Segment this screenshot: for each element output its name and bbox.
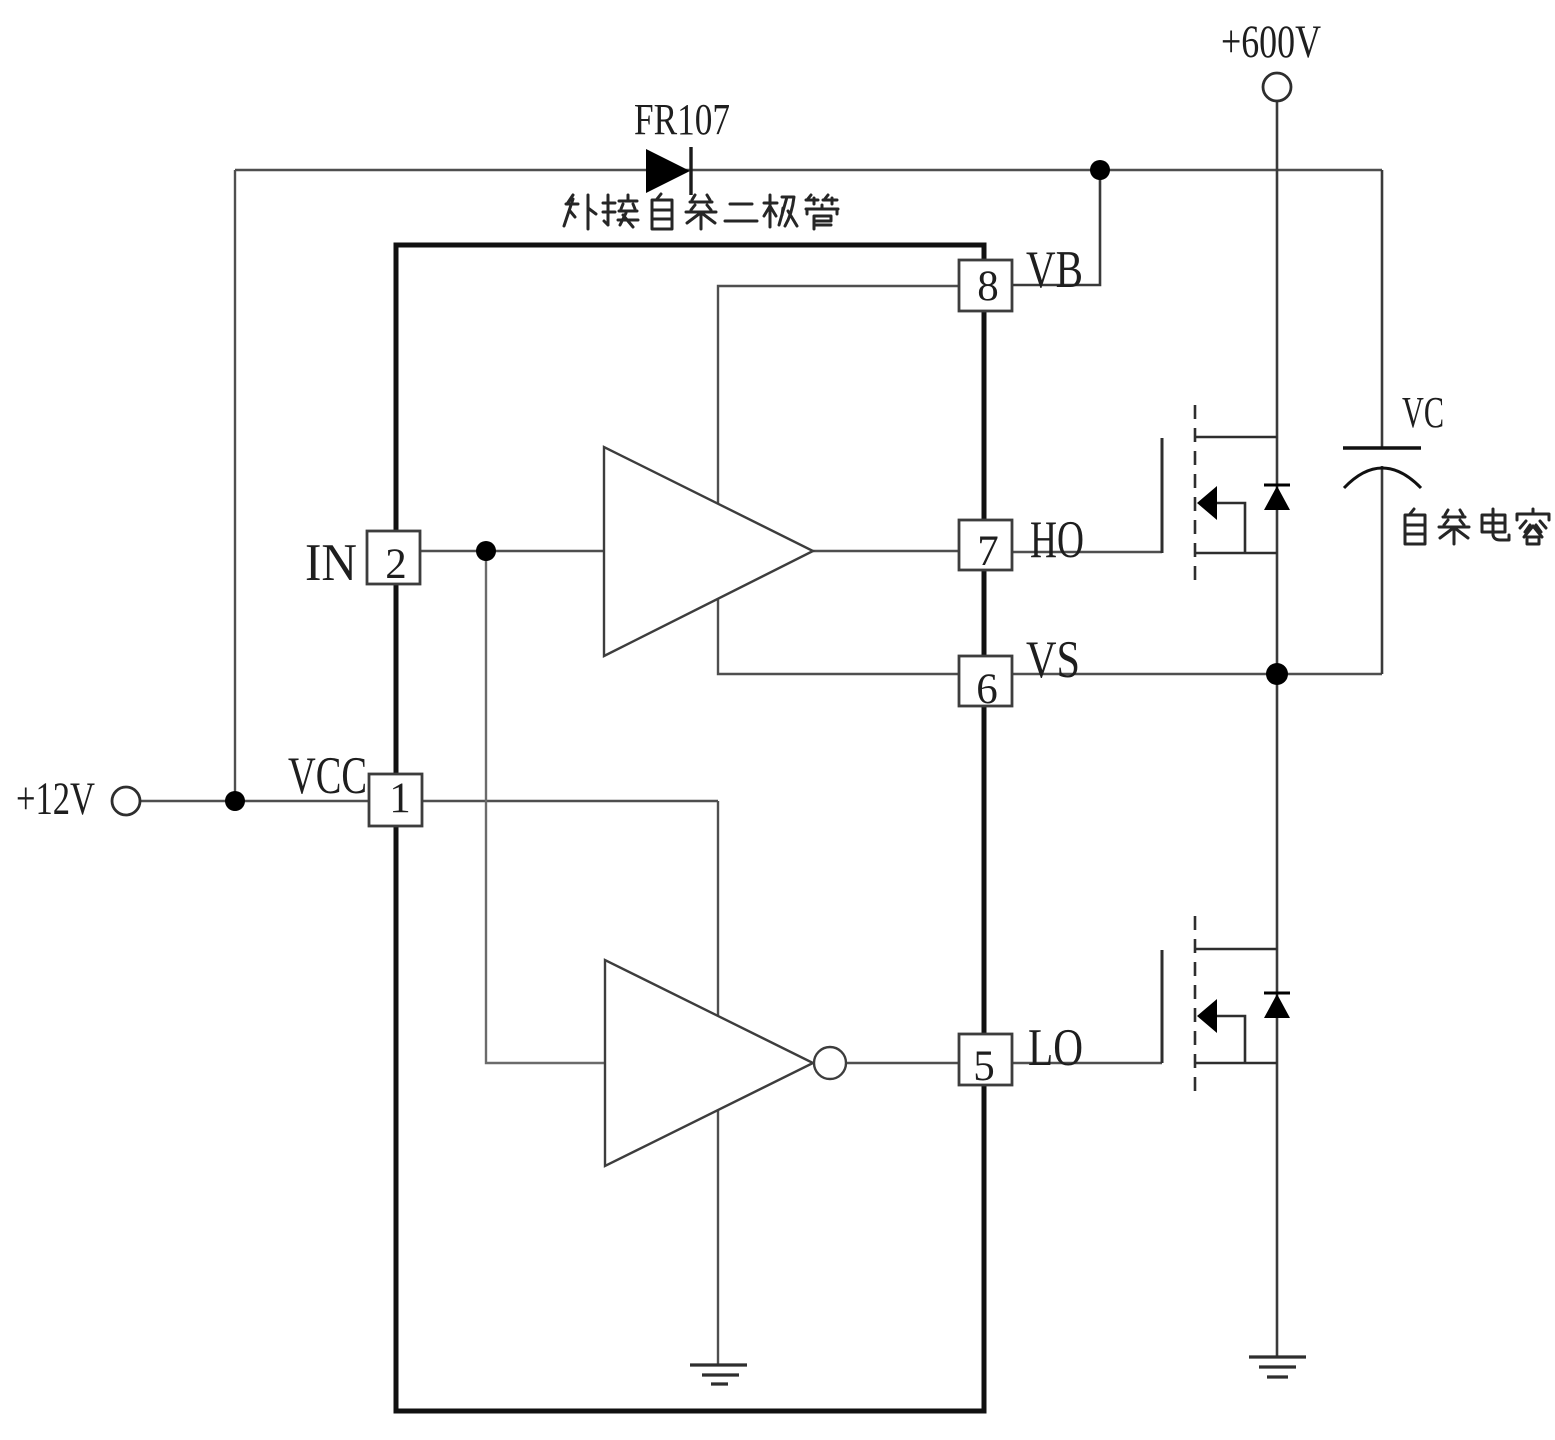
svg-text:IN: IN xyxy=(305,534,357,592)
body diode D1 triangle xyxy=(1264,486,1290,510)
junction node at +12V branch xyxy=(225,791,245,811)
wire lower buffer output to pin5 xyxy=(847,1062,959,1064)
svg-text:LO: LO xyxy=(1028,1019,1083,1077)
svg-text:VB: VB xyxy=(1026,241,1083,299)
svg-text:FR107: FR107 xyxy=(634,95,730,144)
transistor Q1 high-side MOSFET gate bar xyxy=(1161,438,1164,553)
wire upper buffer output to pin7 xyxy=(813,550,959,552)
junction node VS half-bridge xyxy=(1266,663,1288,685)
transistor Q2 body arrow xyxy=(1197,999,1217,1033)
junction node top rail to VB xyxy=(1090,160,1110,180)
svg-text:6: 6 xyxy=(976,666,998,713)
pin 8 box xyxy=(959,260,1012,311)
body diode D1 bar xyxy=(1264,484,1290,487)
label 外接自举二极管 (external bootstrap diode) xyxy=(564,194,838,229)
label 自举电容 (bootstrap capacitor) xyxy=(1405,509,1549,544)
transistor Q1 body lead xyxy=(1217,503,1245,553)
terminal +12V circle xyxy=(112,787,140,815)
wire IN node down to lower buffer input xyxy=(486,551,605,1063)
wire HO pin7 to high-side gate xyxy=(1012,551,1162,553)
wire VB pin8 to top junction xyxy=(1012,170,1100,285)
wire internal ground vertical x=718 xyxy=(717,801,719,1364)
transistor Q2 channel dashed line xyxy=(1194,916,1197,1096)
terminal +600V circle xyxy=(1263,73,1291,101)
svg-text:+600V: +600V xyxy=(1221,16,1321,68)
body diode D2 triangle xyxy=(1264,994,1290,1018)
wire +600V rail vertical xyxy=(1276,101,1279,1357)
wire bootstrap cap top lead xyxy=(1381,170,1384,448)
transistor Q2 body lead xyxy=(1217,1016,1245,1063)
wire IN pin2 to upper buffer input xyxy=(420,550,604,552)
wire bootstrap cap bottom lead xyxy=(1381,466,1384,674)
svg-text:+12V: +12V xyxy=(16,773,95,825)
ground internal COM xyxy=(690,1365,747,1384)
svg-text:VCC: VCC xyxy=(288,747,367,805)
svg-text:VC: VC xyxy=(1402,388,1444,437)
pin 7 box xyxy=(959,520,1012,570)
pin 6 box xyxy=(959,656,1012,706)
wire top rail from left branch to bootstrap cap xyxy=(235,169,1382,171)
svg-text:5: 5 xyxy=(973,1043,995,1090)
transistor Q2 low-side MOSFET gate bar xyxy=(1161,950,1164,1063)
svg-text:VS: VS xyxy=(1026,631,1080,689)
wire internal loop pin8 to pin6 xyxy=(718,286,959,674)
transistor Q2 drain stub xyxy=(1195,948,1277,951)
wire VS pin6 to half-bridge node and cap xyxy=(1012,673,1382,675)
body diode D2 bar xyxy=(1264,992,1290,995)
pin 2 box xyxy=(367,531,420,584)
wire LO pin5 to low-side gate xyxy=(1012,1062,1162,1064)
diode FR107 body xyxy=(646,149,690,193)
capacitor VC curved bottom plate xyxy=(1344,468,1421,488)
wire +12V to VCC pin 1 and onward xyxy=(141,800,718,802)
svg-text:1: 1 xyxy=(389,775,411,822)
op-amp buffer A2 (low side, inverting) xyxy=(605,960,813,1166)
op-amp buffer A1 (high side, non-inverting) xyxy=(604,447,813,656)
transistor Q1 drain stub xyxy=(1195,436,1277,439)
junction node at IN branch xyxy=(476,541,496,561)
pin 1 box xyxy=(369,774,422,826)
svg-text:HO: HO xyxy=(1030,511,1084,569)
svg-text:7: 7 xyxy=(977,528,999,575)
transistor Q1 body arrow xyxy=(1197,486,1217,520)
transistor Q2 source stub xyxy=(1195,1062,1277,1065)
transistor Q1 channel dashed line xyxy=(1194,405,1197,585)
diode FR107 cathode bar xyxy=(689,147,692,195)
capacitor VC top plate xyxy=(1343,446,1421,449)
ground low-side source xyxy=(1249,1357,1306,1377)
transistor Q1 source stub xyxy=(1195,552,1277,555)
pin 5 box xyxy=(959,1034,1012,1085)
IC body outline U1 xyxy=(396,245,984,1411)
svg-text:2: 2 xyxy=(385,541,407,588)
wire left vertical from +12V node up to top rail xyxy=(234,170,236,801)
svg-text:8: 8 xyxy=(977,263,999,310)
inverter bubble of A2 xyxy=(814,1047,846,1079)
